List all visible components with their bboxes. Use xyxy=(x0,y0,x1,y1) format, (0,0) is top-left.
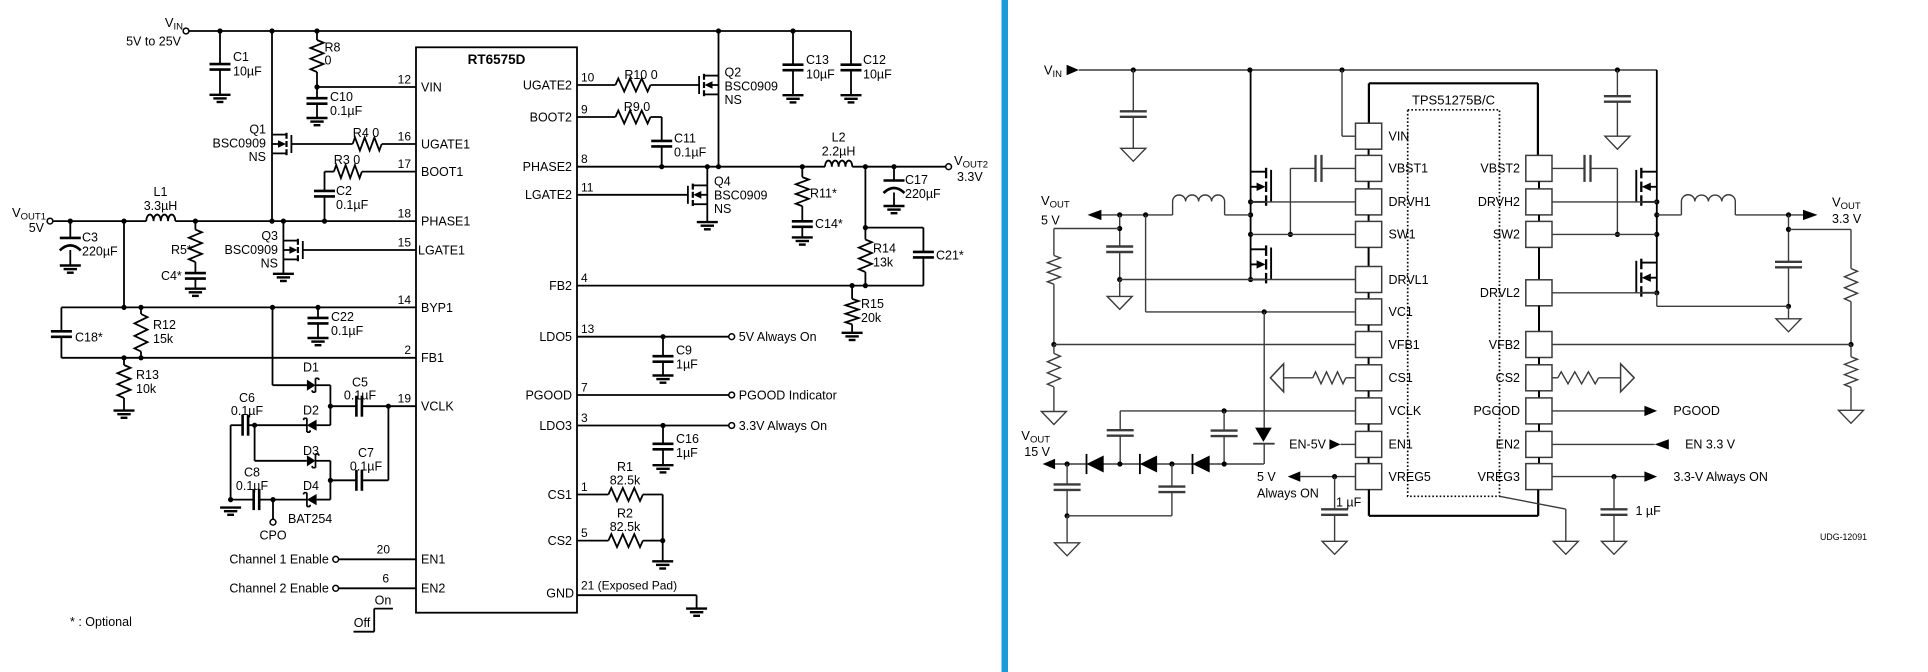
svg-text:FB1: FB1 xyxy=(421,351,444,365)
pin box VBST1 xyxy=(1356,149,1429,181)
svg-text:SW1: SW1 xyxy=(1389,228,1416,242)
capacitor input bypass 1 xyxy=(1120,70,1147,148)
wire PHASE1 to BYP1 xyxy=(123,221,125,307)
svg-text:C12: C12 xyxy=(863,53,886,67)
svg-text:C4*: C4* xyxy=(161,269,182,283)
svg-text:15 V: 15 V xyxy=(1024,445,1050,459)
capacitor pump low 2 xyxy=(1158,464,1185,516)
svg-text:BSC0909: BSC0909 xyxy=(725,80,779,94)
svg-text:On: On xyxy=(375,594,392,608)
pin box DRVL2 xyxy=(1480,247,1552,305)
ground Q4 xyxy=(697,222,718,229)
ground R15 xyxy=(842,333,863,340)
svg-text:Off: Off xyxy=(354,616,371,630)
ground exposed pad xyxy=(686,609,707,616)
svg-text:PGOOD: PGOOD xyxy=(1473,404,1520,418)
svg-text:R2: R2 xyxy=(617,507,633,521)
resistor feedback bottom buck2 xyxy=(1845,345,1858,411)
svg-text:10µF: 10µF xyxy=(863,68,892,82)
wire thermal pad diagonal xyxy=(1500,496,1566,541)
svg-text:13k: 13k xyxy=(873,256,894,270)
wire CS1 right xyxy=(1270,364,1355,392)
ground C12 xyxy=(841,95,862,102)
svg-text:CS1: CS1 xyxy=(1389,371,1413,385)
svg-text:NS: NS xyxy=(714,202,731,216)
pin UGATE1 16 xyxy=(398,130,470,152)
wire VIN top rail xyxy=(189,28,851,33)
wire FB2 rail xyxy=(577,283,923,288)
transistor low-side buck2 xyxy=(1636,234,1659,296)
svg-text:VC1: VC1 xyxy=(1389,305,1413,319)
svg-text:UDG-12091: UDG-12091 xyxy=(1820,532,1867,542)
wire LGATE1 pin15 xyxy=(303,249,416,251)
svg-text:C10: C10 xyxy=(330,90,353,104)
resistor R10 xyxy=(577,68,699,92)
svg-text:C18*: C18* xyxy=(75,331,103,345)
svg-text:15: 15 xyxy=(398,236,412,250)
resistor R15 xyxy=(846,286,884,333)
capacitor VBST1 xyxy=(1288,155,1356,237)
wire DRVH1 xyxy=(1251,201,1356,203)
wire LDO3 pin3 xyxy=(577,419,827,433)
wire VIN to pin box xyxy=(1342,70,1356,136)
wire D4 to C8 xyxy=(259,497,307,502)
pin box SW1 xyxy=(1356,215,1416,248)
wire VCLK right xyxy=(1120,408,1355,413)
svg-text:Q3: Q3 xyxy=(261,229,278,243)
wire C8 to ground xyxy=(228,497,254,502)
svg-text:DRVH1: DRVH1 xyxy=(1389,195,1431,209)
resistor R1 xyxy=(577,460,663,501)
svg-text:NS: NS xyxy=(261,257,278,271)
ground C3 xyxy=(60,266,81,273)
svg-text:C21*: C21* xyxy=(936,249,964,263)
pin box SW2 xyxy=(1493,215,1552,248)
pin UGATE2 10 xyxy=(523,71,595,93)
resistor R2 xyxy=(577,507,663,548)
resistor R5 xyxy=(171,221,202,273)
wire DRVL1 xyxy=(1120,279,1356,281)
wire PHASE2 rail xyxy=(577,164,946,169)
svg-text:LGATE2: LGATE2 xyxy=(525,188,572,202)
wire DRVL2 xyxy=(1552,292,1657,294)
svg-text:PGOOD: PGOOD xyxy=(525,388,572,402)
svg-text:VIN: VIN xyxy=(421,81,442,95)
pin box VFB1 xyxy=(1356,325,1420,358)
svg-text:VBST2: VBST2 xyxy=(1480,162,1520,176)
svg-text:0.1µF: 0.1µF xyxy=(330,104,363,118)
svg-text:NS: NS xyxy=(725,93,742,107)
svg-text:C6: C6 xyxy=(239,391,255,405)
svg-text:L2: L2 xyxy=(832,131,846,145)
svg-text:15k: 15k xyxy=(153,332,174,346)
svg-text:2.2µH: 2.2µH xyxy=(822,145,856,159)
capacitor C9 xyxy=(653,337,699,376)
ground C22 xyxy=(308,338,329,345)
capacitor C5 xyxy=(344,376,377,417)
svg-text:3.3V Always On: 3.3V Always On xyxy=(739,419,827,433)
svg-text:TPS51275B/C: TPS51275B/C xyxy=(1412,93,1495,108)
capacitor output buck1 xyxy=(1106,215,1133,297)
svg-text:0.1µF: 0.1µF xyxy=(231,404,264,418)
svg-text:GND: GND xyxy=(546,587,574,601)
wire C7 row xyxy=(330,406,388,480)
node VOUT 3.3V xyxy=(1803,195,1862,227)
svg-text:0.1µF: 0.1µF xyxy=(350,460,383,474)
svg-text:LGATE1: LGATE1 xyxy=(418,244,465,258)
svg-text:9: 9 xyxy=(581,103,588,117)
svg-text:17: 17 xyxy=(398,157,412,171)
pin FB2 4 xyxy=(549,271,588,293)
svg-text:82.5k: 82.5k xyxy=(610,474,641,488)
ground C17 xyxy=(884,206,905,213)
resistor R13 xyxy=(118,358,159,411)
node 3.3V Always ON xyxy=(1552,470,1768,484)
svg-text:Always ON: Always ON xyxy=(1257,486,1319,500)
capacitor pump low 1 xyxy=(1054,464,1081,518)
wire D2 to C6 xyxy=(248,423,307,428)
capacitor C16 xyxy=(653,426,699,466)
svg-text:LDO3: LDO3 xyxy=(539,419,572,433)
svg-text:VIN: VIN xyxy=(1389,130,1410,144)
svg-text:C8: C8 xyxy=(244,466,260,480)
symbol On Off waveform xyxy=(354,594,393,632)
svg-text:D1: D1 xyxy=(303,361,319,375)
svg-text:0.1µF: 0.1µF xyxy=(331,324,364,338)
wire D1 to VCLK node xyxy=(316,385,334,425)
capacitor C17 xyxy=(884,167,942,206)
svg-text:DRVL1: DRVL1 xyxy=(1389,273,1429,287)
wire FB1 rail xyxy=(61,355,416,360)
pin BYP1 14 xyxy=(398,293,453,315)
op-amp U1 RT6575D IC box xyxy=(416,47,577,612)
svg-text:3.3-V Always ON: 3.3-V Always ON xyxy=(1673,470,1767,484)
pin PGOOD 7 xyxy=(525,381,588,403)
wire VCLK row xyxy=(330,404,416,409)
svg-text:VBST1: VBST1 xyxy=(1389,162,1429,176)
capacitor VREG5 1uF xyxy=(1321,477,1362,542)
op-amp U2 TPS51275 dotted box xyxy=(1408,93,1500,497)
resistor feedback top buck1 xyxy=(1047,256,1060,348)
capacitor C12 xyxy=(841,31,893,95)
capacitor output buck2 xyxy=(1775,215,1802,319)
transistor high-side buck2 xyxy=(1636,70,1659,237)
svg-text:21 (Exposed Pad): 21 (Exposed Pad) xyxy=(581,578,677,592)
capacitor C21 xyxy=(913,249,964,286)
note Optional xyxy=(70,615,132,629)
diode D1 xyxy=(303,361,319,393)
svg-text:C13: C13 xyxy=(806,53,829,67)
wire low-side2 source return xyxy=(1657,293,1789,307)
wire D2 node to D3 xyxy=(255,425,307,461)
svg-text:R14: R14 xyxy=(873,242,896,256)
ground arrow output buck2 xyxy=(1776,319,1801,332)
wire feedback branch buck2 xyxy=(1789,229,1852,268)
diode D2 xyxy=(303,404,330,433)
transistor Q1 xyxy=(212,31,291,221)
pin EN2 6 xyxy=(382,571,445,595)
svg-text:UGATE1: UGATE1 xyxy=(421,138,470,152)
svg-text:C22: C22 xyxy=(331,310,354,324)
svg-text:C9: C9 xyxy=(676,344,692,358)
wire D3 to C7 node xyxy=(316,461,334,500)
ground arrow feedback buck2 xyxy=(1839,410,1864,423)
svg-text:SW2: SW2 xyxy=(1493,228,1520,242)
ground C14 xyxy=(792,237,813,244)
svg-text:C5: C5 xyxy=(352,376,368,390)
diode D3 xyxy=(303,444,319,468)
pin box CS1 xyxy=(1356,358,1413,391)
note UDG-12091 xyxy=(1820,532,1867,542)
diode D4 xyxy=(288,479,332,526)
pin FB1 2 xyxy=(404,343,444,365)
ground C4 xyxy=(185,289,206,296)
capacitor C10 xyxy=(307,87,363,118)
svg-text:D2: D2 xyxy=(303,404,319,418)
inductor L2 xyxy=(822,131,856,167)
svg-text:C3: C3 xyxy=(82,231,98,245)
svg-text:R12: R12 xyxy=(153,318,176,332)
pin box DRVH1 xyxy=(1356,181,1431,215)
wire VFB1 xyxy=(1054,344,1356,346)
svg-text:8: 8 xyxy=(581,152,588,166)
svg-text:EN1: EN1 xyxy=(421,553,445,567)
svg-text:CPO: CPO xyxy=(259,529,286,543)
resistor R14 xyxy=(859,228,896,286)
svg-text:EN 3.3 V: EN 3.3 V xyxy=(1685,438,1736,452)
diode pump 3 xyxy=(1193,454,1210,474)
svg-text:20: 20 xyxy=(377,542,391,556)
svg-text:1µF: 1µF xyxy=(676,446,698,460)
svg-text:CS2: CS2 xyxy=(548,534,572,548)
svg-text:Q4: Q4 xyxy=(714,174,731,188)
svg-text:BYP1: BYP1 xyxy=(421,301,453,315)
wire VIN pin12 xyxy=(314,84,416,89)
svg-text:RT6575D: RT6575D xyxy=(468,52,526,67)
wire VC1 xyxy=(1146,215,1356,315)
svg-text:19: 19 xyxy=(398,392,412,406)
resistor R8 xyxy=(311,31,341,87)
svg-text:R11*: R11* xyxy=(810,187,837,201)
pin PHASE2 8 xyxy=(523,152,588,174)
node PGOOD output xyxy=(1552,404,1720,418)
svg-text:BSC0909: BSC0909 xyxy=(224,243,278,257)
svg-text:EN2: EN2 xyxy=(1496,438,1520,452)
svg-text:FB2: FB2 xyxy=(549,279,572,293)
diode pump 2 xyxy=(1140,454,1157,474)
svg-text:DRVH2: DRVH2 xyxy=(1478,195,1520,209)
svg-text:4: 4 xyxy=(581,271,588,285)
svg-text:82.5k: 82.5k xyxy=(610,520,641,534)
ground C16 xyxy=(653,465,674,472)
capacitor input bypass 2 xyxy=(1604,70,1631,136)
pin box VREG5 xyxy=(1356,457,1431,489)
svg-text:PHASE2: PHASE2 xyxy=(523,160,572,174)
wire CS2 right xyxy=(1552,364,1634,392)
ground arrow feedback buck1 xyxy=(1041,412,1066,425)
svg-text:20k: 20k xyxy=(861,311,882,325)
capacitor VCLK right xyxy=(1211,411,1238,464)
divider blue bar xyxy=(1002,0,1009,672)
svg-text:BAT254: BAT254 xyxy=(288,512,332,526)
wire SW1 xyxy=(1251,233,1356,235)
ground R13 xyxy=(114,411,135,418)
svg-text:BSC0909: BSC0909 xyxy=(714,188,768,202)
pin box CS2 xyxy=(1496,358,1552,391)
wire pump bottom xyxy=(1067,516,1172,543)
capacitor C1 xyxy=(210,31,263,95)
svg-text:R9 0: R9 0 xyxy=(624,100,650,114)
svg-text:EN2: EN2 xyxy=(421,582,445,596)
svg-text:3: 3 xyxy=(581,411,588,425)
svg-text:1 µF: 1 µF xyxy=(1336,496,1362,510)
wire BYP1 to D1 xyxy=(273,307,307,385)
transistor Q2 xyxy=(699,31,778,167)
ground arrow thermal pad xyxy=(1553,541,1578,554)
svg-text:0.1µF: 0.1µF xyxy=(344,389,377,403)
pin GND 21 xyxy=(546,578,677,600)
ground C1 xyxy=(210,95,231,102)
svg-text:Channel 1 Enable: Channel 1 Enable xyxy=(229,553,328,567)
resistor feedback top buck2 xyxy=(1845,269,1858,348)
ground arrow pump xyxy=(1055,543,1080,556)
svg-text:10µF: 10µF xyxy=(806,68,835,82)
pin box VC1 xyxy=(1356,293,1413,325)
wire VFB2 xyxy=(1552,344,1851,346)
capacitor C7 xyxy=(350,446,383,491)
svg-text:10: 10 xyxy=(581,71,595,85)
pin box DRVL1 xyxy=(1356,247,1429,292)
capacitor VREG3 1uF xyxy=(1601,477,1662,542)
svg-text:BOOT1: BOOT1 xyxy=(421,165,463,179)
capacitor C11 xyxy=(651,117,706,167)
pin LGATE1 15 xyxy=(398,236,465,258)
svg-text:3.3V: 3.3V xyxy=(957,170,983,184)
svg-text:VFB2: VFB2 xyxy=(1489,338,1520,352)
svg-text:Channel 2 Enable: Channel 2 Enable xyxy=(229,582,328,596)
capacitor C22 xyxy=(308,307,364,338)
svg-text:UGATE2: UGATE2 xyxy=(523,78,572,92)
wire VIN to VBST2 top route xyxy=(1369,83,1538,155)
wire VIN rail right xyxy=(1079,67,1657,72)
ground Q3 xyxy=(273,274,294,281)
svg-text:VCLK: VCLK xyxy=(1389,404,1422,418)
svg-text:11: 11 xyxy=(581,180,594,194)
svg-text:R1: R1 xyxy=(617,460,633,474)
svg-text:1 µF: 1 µF xyxy=(1636,504,1662,518)
pin LDO3 3 xyxy=(539,411,588,433)
wire LDO5 pin13 xyxy=(577,330,817,344)
transistor Q4 xyxy=(688,167,768,222)
pin CS1 1 xyxy=(548,480,588,502)
svg-text:R15: R15 xyxy=(861,297,884,311)
resistor R3 xyxy=(325,153,417,178)
pin box DRVH2 xyxy=(1478,181,1552,215)
wire PHASE1 rail xyxy=(53,219,416,224)
capacitor VBST2 xyxy=(1552,155,1620,237)
svg-text:R4 0: R4 0 xyxy=(353,126,379,140)
svg-text:R8: R8 xyxy=(325,41,341,55)
resistor R4 xyxy=(291,126,416,151)
svg-text:VREG5: VREG5 xyxy=(1389,470,1431,484)
ground C13 xyxy=(783,95,804,102)
pin CS2 5 xyxy=(548,526,588,548)
capacitor C14 xyxy=(792,217,843,237)
svg-text:CS2: CS2 xyxy=(1496,371,1520,385)
svg-text:1µF: 1µF xyxy=(676,358,698,372)
svg-text:C14*: C14* xyxy=(815,217,843,231)
wire FB2 network top xyxy=(863,167,924,252)
ground arrow input 2 xyxy=(1605,136,1630,149)
wire SW2 xyxy=(1552,233,1657,235)
svg-text:1: 1 xyxy=(581,480,588,494)
pin box VCLK xyxy=(1356,391,1422,424)
svg-text:2: 2 xyxy=(404,343,411,357)
ground C9 xyxy=(653,376,674,383)
pin box VFB2 xyxy=(1489,306,1552,358)
node VIN label right xyxy=(1044,63,1079,81)
pin box VREG3 xyxy=(1478,457,1552,489)
pin box PGOOD xyxy=(1473,391,1552,424)
wire diode pump row xyxy=(1055,461,1264,466)
svg-text:5: 5 xyxy=(581,526,588,540)
wire C6 left leg xyxy=(231,425,243,499)
svg-text:CS1: CS1 xyxy=(548,488,572,502)
svg-text:DRVL2: DRVL2 xyxy=(1480,286,1520,300)
capacitor C4 xyxy=(161,269,206,289)
wire DRVH2 xyxy=(1552,201,1657,203)
node VOUT2 terminal xyxy=(946,153,988,184)
svg-text:L1: L1 xyxy=(154,185,168,199)
ground arrow input 1 xyxy=(1121,148,1146,161)
wire VREG5 VREG3 bottom route xyxy=(1369,490,1538,516)
pin VIN 12 xyxy=(398,73,442,95)
svg-text:Q2: Q2 xyxy=(725,66,742,80)
transistor Q3 xyxy=(224,221,302,274)
capacitor C3 xyxy=(60,221,118,265)
ground CS xyxy=(652,561,673,568)
svg-text:PGOOD Indicator: PGOOD Indicator xyxy=(739,388,837,402)
wire PGOOD pin7 xyxy=(577,388,837,402)
svg-text:7: 7 xyxy=(581,381,588,395)
node EN 3.3V xyxy=(1552,438,1736,452)
svg-text:12: 12 xyxy=(398,73,412,87)
ground arrow VREG5 xyxy=(1322,541,1347,554)
svg-text:C11: C11 xyxy=(674,132,696,146)
resistor R12 xyxy=(135,307,176,357)
wire BYP1 rail xyxy=(61,305,416,310)
resistor R9 xyxy=(577,100,662,124)
node VIN input terminal xyxy=(126,15,189,49)
diode EN-5V vertical xyxy=(1253,312,1274,464)
svg-text:EN-5V: EN-5V xyxy=(1289,438,1326,452)
svg-text:220µF: 220µF xyxy=(905,187,941,201)
ground arrow VREG3 xyxy=(1602,541,1627,554)
resistor feedback bottom buck1 xyxy=(1047,345,1060,412)
wire GND pin21 xyxy=(577,595,697,608)
svg-text:0.1µF: 0.1µF xyxy=(336,198,369,212)
transistor high-side buck1 xyxy=(1248,70,1271,237)
node Channel 2 Enable xyxy=(229,582,416,596)
svg-text:16: 16 xyxy=(398,130,412,144)
inductor buck2 xyxy=(1657,195,1803,218)
pin LDO5 13 xyxy=(539,322,594,344)
svg-text:0.1µF: 0.1µF xyxy=(236,479,269,493)
pin box VBST2 xyxy=(1480,155,1552,181)
svg-text:R5*: R5* xyxy=(171,243,192,257)
pin PHASE1 18 xyxy=(398,207,471,229)
svg-text:13: 13 xyxy=(581,322,595,336)
